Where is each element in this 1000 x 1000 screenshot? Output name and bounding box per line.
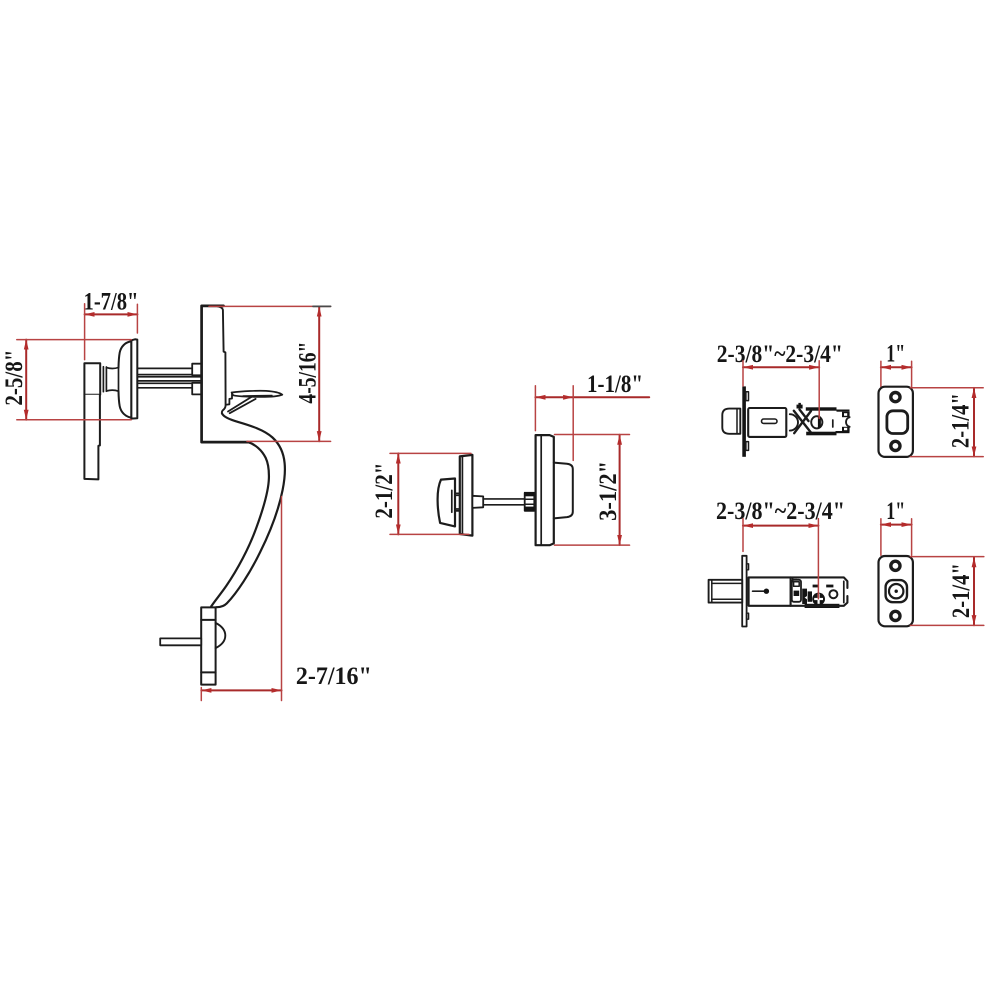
thumb latch arm (228, 397, 256, 413)
extension lines 2-5/8 (17, 340, 131, 420)
strike plate top (879, 387, 913, 457)
deadbolt latch rear housing (791, 577, 848, 605)
extension lines 1 inch bottom (881, 519, 912, 555)
dimension 1 inch bottom line (881, 524, 912, 526)
strike plate bottom deadbolt hole (886, 580, 907, 602)
dimension 1 inch top line (881, 366, 912, 368)
spring latch bolt (722, 409, 740, 434)
dimension 2-7/16 line (201, 689, 281, 691)
spindle bar 1 (top mounting bolt) (137, 368, 192, 374)
spring latch spring cross (794, 410, 812, 434)
lever rosette bell profile (106, 341, 131, 417)
deadbolt latch top dashes (813, 585, 834, 588)
svg-text:2-5/8": 2-5/8" (1, 350, 28, 406)
strike plate top latch hole (887, 411, 908, 434)
spring latch rear housing E-clip (833, 410, 850, 434)
spring latch body (748, 408, 786, 437)
dimension 2-1/2 line (397, 453, 399, 534)
svg-text:2-7/16": 2-7/16" (296, 663, 372, 690)
deadbolt latch plus screw (812, 593, 825, 606)
svg-text:1": 1" (886, 341, 905, 368)
svg-text:1-7/8": 1-7/8" (84, 289, 139, 316)
spring latch cam arc (790, 414, 798, 430)
thumb latch bracket (227, 393, 232, 405)
spindle hub collar bottom (192, 383, 201, 395)
dimension 2-3/8~2-3/4 top text (717, 341, 843, 368)
extension lines 1-1/8 (535, 386, 573, 461)
lever hub block (84, 363, 100, 395)
thumb latch blade (232, 391, 283, 397)
deadbolt latch bolt (709, 580, 743, 603)
svg-text:2-1/4": 2-1/4" (947, 393, 974, 448)
dimension 4-5/16 line (318, 307, 320, 442)
extension lines 2-1/4 bottom (910, 557, 983, 626)
spindle bar 2 (square spindle) (137, 377, 201, 381)
extension lines 2-1/2 (390, 453, 471, 534)
deadbolt latch faceplate (742, 556, 748, 627)
extension lines 2-3/8~2-3/4 top (743, 361, 819, 419)
thumbturn rosette plate (460, 455, 473, 536)
dimension 3-1/2 line (619, 435, 621, 545)
spring latch bottom rail bar (806, 432, 836, 436)
extension lines 2-3/8~2-3/4 bottom (743, 519, 818, 599)
deadbolt spindle rod (483, 499, 525, 505)
handle grip inner curve (211, 442, 269, 606)
dimension 2-1/4 bottom line (973, 557, 975, 625)
exterior escutcheon top plate (202, 306, 248, 442)
dimension 1-7/8 text (84, 289, 139, 316)
deadbolt latch top notch (793, 578, 797, 582)
dimension 2-5/8 line (25, 340, 27, 420)
strike plate top screw hole lower (891, 441, 900, 450)
extension lines 2-7/16 (201, 497, 281, 701)
spring latch top tab (797, 403, 803, 409)
dimension 2-1/4 bottom text (948, 563, 975, 618)
exterior deadbolt plate (536, 435, 554, 545)
dimension 1 inch top text (886, 341, 905, 368)
deadbolt latch gear blobs (802, 589, 812, 604)
svg-text:2-1/4": 2-1/4" (948, 563, 975, 618)
handle grip outer curve (216, 413, 285, 607)
strike plate top screw hole upper (891, 393, 900, 402)
spring latch faceplate (742, 386, 748, 456)
dimension 1-1/8 text (587, 371, 643, 398)
deadbolt tailpiece pin (160, 638, 201, 645)
dimension 2-3/8~2-3/4 top line (743, 366, 819, 368)
spindle bar 3 (bottom mounting bolt) (137, 383, 192, 388)
svg-text:1": 1" (886, 498, 905, 525)
strike plate bottom screw hole upper (891, 561, 900, 570)
svg-text:2-3/8"~2-3/4": 2-3/8"~2-3/4" (716, 498, 845, 525)
deadbolt spindle adapter block (472, 496, 483, 508)
dimension 2-1/2 text (371, 463, 398, 519)
deadbolt latch slot frame (792, 580, 801, 602)
dimension 1-1/8 line (535, 396, 649, 398)
dimension 2-3/8~2-3/4 bottom text (716, 498, 845, 525)
lever neck collar rings (103, 367, 106, 392)
lever handle bar (84, 395, 100, 480)
dimension 1-7/8 line (85, 313, 138, 315)
svg-text:3-1/2": 3-1/2" (595, 461, 622, 521)
spring latch body slot (762, 419, 778, 423)
svg-text:2-3/8"~2-3/4": 2-3/8"~2-3/4" (717, 341, 843, 368)
extension lines 1 inch top (881, 361, 912, 386)
dimension 3-1/2 text (595, 461, 622, 521)
svg-text:2-1/2": 2-1/2" (371, 463, 398, 519)
extension overshoot dark segment top (313, 305, 331, 307)
spring latch top rail bar (806, 407, 837, 410)
interior lever rosette (side view) (131, 339, 137, 418)
deadbolt latch hex nut (829, 590, 837, 598)
deadbolt latch pin (753, 589, 770, 594)
deadbolt latch body (749, 577, 791, 605)
svg-text:4-5/16": 4-5/16" (295, 342, 322, 404)
deadbolt latch bottom bar (805, 604, 840, 608)
extension lines 4-5/16 (209, 306, 331, 441)
dimension 4-5/16 text (295, 342, 322, 404)
extension lines 3-1/2 (555, 435, 630, 546)
strike plate bottom screw hole lower (891, 611, 900, 620)
dimension 2-5/8 text (1, 350, 28, 406)
strike plate bottom (879, 556, 913, 626)
spring latch adjuster wheel (811, 416, 822, 428)
spindle hub collar top (192, 364, 201, 376)
dimension 2-7/16 text (296, 663, 372, 690)
thumbturn knob (438, 479, 455, 527)
dimension 1 inch bottom text (886, 498, 905, 525)
extension lines 1-7/8 (85, 304, 138, 360)
deadbolt cylinder tower (554, 463, 573, 519)
dimension 2-3/8~2-3/4 bottom line (743, 525, 818, 527)
svg-text:1-1/8": 1-1/8" (587, 371, 643, 398)
deadbolt tailpiece block (524, 492, 535, 511)
extension lines 2-1/4 top (910, 388, 983, 457)
dimension 2-1/4 top text (947, 393, 974, 448)
thumbturn stem (455, 493, 460, 511)
lower mount plate (201, 607, 215, 684)
lower mount cylinder bulge (216, 623, 226, 648)
dimension 2-1/4 top line (973, 388, 975, 457)
